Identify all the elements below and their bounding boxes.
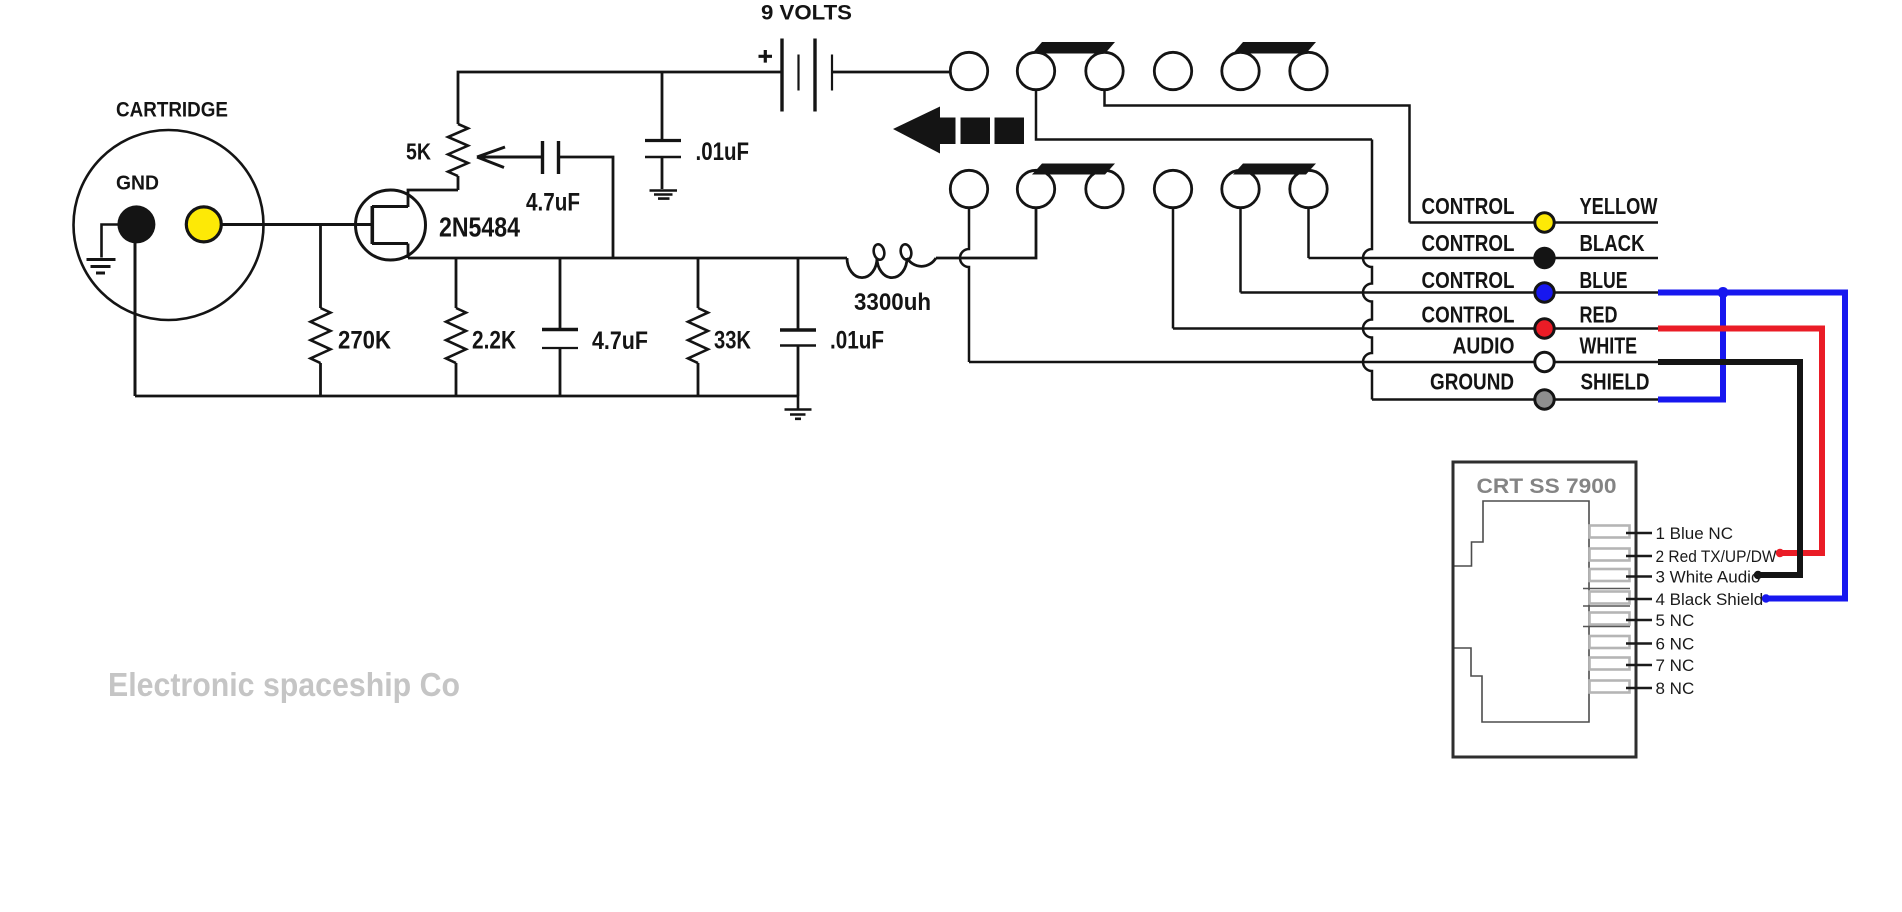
svg-text:5K: 5K bbox=[406, 139, 431, 165]
svg-text:3 White Audio: 3 White Audio bbox=[1656, 568, 1761, 587]
inductor L 3300uh bbox=[847, 258, 936, 278]
pot wiper arrow bbox=[477, 147, 541, 168]
svg-text:33K: 33K bbox=[714, 327, 751, 355]
labels schematic bbox=[108, 1, 1658, 704]
row dot blue bbox=[1535, 283, 1554, 302]
resistor 270K bbox=[319, 225, 322, 397]
svg-text:CONTROL: CONTROL bbox=[1422, 302, 1515, 328]
red wire end cap bbox=[1776, 549, 1784, 557]
capacitor .01uF top bbox=[661, 72, 664, 189]
trunk vertical with hops bbox=[1363, 140, 1372, 400]
cartridge circle bbox=[74, 130, 264, 320]
resistor 33K bbox=[697, 258, 700, 396]
svg-text:YELLOW: YELLOW bbox=[1580, 193, 1659, 219]
wire c6 row2 down bbox=[1307, 208, 1310, 259]
svg-text:BLUE: BLUE bbox=[1580, 267, 1628, 293]
plus sign bbox=[759, 50, 773, 63]
row dot red bbox=[1535, 319, 1554, 338]
wire black pin to bottom rail bbox=[134, 240, 137, 396]
audio row line bbox=[969, 361, 1658, 364]
svg-text:GND: GND bbox=[116, 173, 159, 195]
ground cartridge bbox=[87, 260, 116, 274]
wire c3 row1 to yellow row bbox=[1105, 90, 1410, 223]
wire yellow pin to gate bbox=[221, 223, 371, 226]
wire black thick bbox=[1658, 362, 1800, 575]
svg-text:CRT SS 7900: CRT SS 7900 bbox=[1477, 474, 1617, 498]
row dot yellow bbox=[1535, 213, 1554, 232]
RJ45 contact lines bbox=[1583, 589, 1630, 627]
wire red thick bbox=[1658, 329, 1822, 554]
RJ45 pins bbox=[1590, 526, 1630, 693]
wire c2 row1 to trunk bbox=[1036, 90, 1372, 140]
transistor Q1 2N5484 bbox=[356, 190, 426, 260]
svg-text:4.7uF: 4.7uF bbox=[526, 189, 580, 217]
control row black line bbox=[1309, 257, 1659, 260]
ground main bbox=[785, 396, 812, 419]
potentiometer 5K zigzag bbox=[448, 124, 468, 176]
junction blue bbox=[1718, 287, 1729, 298]
svg-text:BLACK: BLACK bbox=[1580, 230, 1645, 256]
svg-text:CARTRIDGE: CARTRIDGE bbox=[116, 98, 228, 122]
svg-text:8 NC: 8 NC bbox=[1656, 679, 1695, 698]
svg-text:4 Black Shield: 4 Black Shield bbox=[1656, 590, 1764, 609]
svg-text:3300uh: 3300uh bbox=[854, 289, 931, 316]
wire blue thick bbox=[1658, 293, 1845, 599]
svg-text:2 Red TX/UP/DW: 2 Red TX/UP/DW bbox=[1656, 547, 1777, 566]
blue wire end cap bbox=[1762, 594, 1770, 602]
svg-text:CONTROL: CONTROL bbox=[1422, 267, 1515, 293]
RJ45 pin ticks bbox=[1626, 533, 1652, 688]
row dot gray bbox=[1535, 390, 1554, 409]
svg-text:6 NC: 6 NC bbox=[1656, 635, 1695, 654]
RJ45 jack outline bbox=[1455, 501, 1590, 722]
wire c1 row2 to audio row with hop bbox=[960, 208, 969, 363]
svg-text:Electronic spaceship Co: Electronic spaceship Co bbox=[108, 666, 460, 703]
capacitor 4.7uF bottom bbox=[559, 258, 562, 396]
svg-text:CONTROL: CONTROL bbox=[1422, 230, 1515, 256]
rail after inductor to c2 row2 bbox=[936, 208, 1036, 259]
svg-text:GROUND: GROUND bbox=[1430, 369, 1514, 395]
svg-text:4.7uF: 4.7uF bbox=[592, 327, 648, 355]
svg-text:1 Blue NC: 1 Blue NC bbox=[1656, 524, 1733, 543]
5K top lead and top wire to battery bbox=[458, 72, 782, 124]
svg-text:AUDIO: AUDIO bbox=[1453, 333, 1515, 359]
main rail source line bbox=[408, 257, 847, 260]
wire gnd pin to ground bbox=[102, 225, 119, 258]
connector row 1 key bars bbox=[1032, 42, 1115, 54]
connector row 2 key bars bbox=[1032, 164, 1115, 175]
connector row 2 circles bbox=[950, 170, 1327, 207]
svg-text:WHITE: WHITE bbox=[1580, 333, 1638, 359]
ground .01uF top bbox=[650, 191, 678, 199]
svg-text:SHIELD: SHIELD bbox=[1581, 369, 1650, 395]
wire battery to connector bbox=[832, 71, 950, 74]
row dot white bbox=[1535, 352, 1554, 371]
arrow cable direction bbox=[893, 107, 1024, 154]
svg-text:7 NC: 7 NC bbox=[1656, 656, 1695, 675]
connector row 1 circles bbox=[950, 52, 1327, 89]
bottom rail bbox=[135, 395, 798, 398]
black wire end cap bbox=[1754, 571, 1762, 579]
wire drain to 5K bbox=[408, 176, 458, 207]
capacitor .01uF bottom bbox=[797, 258, 800, 396]
svg-text:CONTROL: CONTROL bbox=[1422, 193, 1515, 219]
svg-text:.01uF: .01uF bbox=[830, 327, 884, 355]
row dot black bbox=[1533, 247, 1555, 269]
battery 9V plates bbox=[782, 39, 815, 112]
wire cap to rail bbox=[560, 157, 614, 258]
capacitor C 4.7uF coupling bbox=[543, 141, 559, 174]
svg-text:2.2K: 2.2K bbox=[472, 327, 516, 355]
svg-text:9 VOLTS: 9 VOLTS bbox=[761, 1, 852, 25]
svg-text:5 NC: 5 NC bbox=[1656, 611, 1695, 630]
wire c4 row2 down bbox=[1172, 208, 1175, 329]
cartridge signal pin yellow bbox=[186, 207, 221, 242]
RJ45 pin labels bbox=[1656, 524, 1777, 698]
RJ45 outer box bbox=[1453, 462, 1636, 757]
wire c5 row2 down bbox=[1239, 208, 1242, 293]
wire blue shield branch bbox=[1658, 293, 1723, 400]
cartridge ground pin black bbox=[117, 205, 155, 243]
ground row line bbox=[1372, 398, 1658, 401]
control row blue line bbox=[1241, 291, 1659, 294]
control row red line bbox=[1173, 327, 1658, 330]
svg-text:RED: RED bbox=[1580, 302, 1618, 328]
svg-text:.01uF: .01uF bbox=[696, 138, 750, 166]
svg-text:2N5484: 2N5484 bbox=[439, 212, 521, 243]
svg-text:270K: 270K bbox=[338, 327, 391, 355]
control row yellow line bbox=[1410, 221, 1659, 224]
resistor 2.2K bbox=[455, 258, 458, 396]
